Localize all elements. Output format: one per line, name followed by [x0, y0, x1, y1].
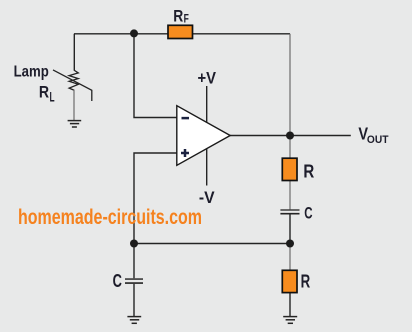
- wire output horizontal: [230, 135, 351, 137]
- svg-text:R: R: [173, 6, 183, 25]
- resistor R2 (right bottom): [282, 270, 297, 292]
- wire R2 to ground: [289, 292, 291, 316]
- svg-text:R: R: [39, 82, 49, 101]
- node B junction dot: [130, 240, 138, 248]
- svg-text:+V: +V: [198, 69, 217, 88]
- ground (bottom left): [127, 317, 141, 324]
- wire node C to R1 (gray): [289, 136, 291, 159]
- wire top horizontal: [74, 33, 290, 35]
- op-amp minus input symbol: [182, 117, 190, 120]
- resistor R1 (right top): [282, 158, 297, 180]
- wire C1 to ground: [133, 284, 135, 316]
- wire node A to inverting input: [134, 34, 177, 118]
- op-amp plus input symbol: [181, 149, 189, 157]
- wire node D to R2 (gray): [289, 244, 291, 271]
- node VOUT junction dot: [286, 132, 294, 140]
- wire non-inverting input to node B: [134, 153, 177, 244]
- wire bottom horizontal: [134, 243, 290, 245]
- svg-text:-V: -V: [199, 188, 215, 207]
- wire node B to C1: [133, 244, 135, 279]
- wire R1 to C2 (gray): [289, 180, 291, 210]
- svg-text:C: C: [304, 204, 312, 223]
- svg-text:R: R: [303, 162, 314, 182]
- wire lamp vertical lower (gray): [73, 90, 75, 121]
- svg-text:L: L: [50, 89, 55, 104]
- wire C2 to node D: [289, 214, 291, 243]
- lamp diagonal stroke: [53, 70, 92, 101]
- lamp RL zigzag element: [69, 70, 78, 90]
- -V supply line: [206, 149, 208, 186]
- op-amp U1 triangle: [177, 106, 230, 166]
- svg-text:OUT: OUT: [367, 134, 389, 146]
- capacitor C1 plates (bottom left): [125, 279, 143, 283]
- capacitor C2 plates (right): [280, 210, 299, 214]
- node D junction dot: [286, 240, 294, 248]
- wire right vertical from top (gray): [289, 34, 291, 136]
- svg-text:Lamp: Lamp: [14, 64, 49, 81]
- wire lamp vertical upper: [73, 34, 75, 70]
- ground (bottom right): [283, 317, 297, 324]
- svg-text:homemade-circuits.com: homemade-circuits.com: [18, 206, 202, 229]
- node A junction dot: [130, 29, 138, 37]
- +V supply line: [206, 86, 208, 122]
- resistor RF: [168, 25, 193, 38]
- svg-text:C: C: [113, 271, 122, 291]
- svg-text:F: F: [184, 14, 189, 26]
- ground (lamp): [68, 121, 82, 127]
- svg-text:R: R: [301, 272, 311, 292]
